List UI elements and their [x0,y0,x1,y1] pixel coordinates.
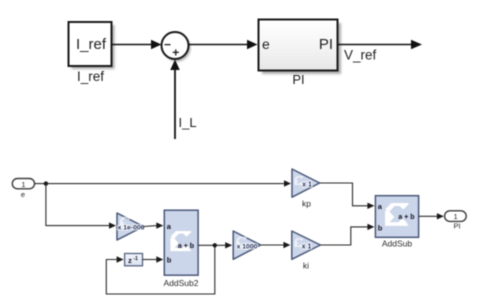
svg-text:a + b: a + b [398,214,414,221]
svg-text:kp: kp [302,199,311,209]
svg-text:x 1: x 1 [302,181,312,188]
wire e branch down to gain [46,184,109,226]
wire sum to PI [189,44,249,46]
sum junction shadow [164,35,191,62]
svg-text:e: e [262,36,270,52]
block I_ref shadow [72,25,115,69]
block AddSub2 [164,210,198,275]
block AddSub [375,196,418,238]
svg-text:z: z [128,256,132,265]
svg-text:I_ref: I_ref [77,69,104,84]
junction node [44,181,48,185]
junction node AddSub2 out [213,243,217,247]
svg-text:PI: PI [453,222,460,231]
gain x1000 triangle [233,231,260,259]
svg-text:PI: PI [319,36,333,53]
wire gain to AddSub2 a [144,225,158,228]
block PI [259,20,338,71]
svg-text:I_L: I_L [179,115,197,130]
output port 1 oval [445,211,467,222]
block I_ref [69,22,112,66]
gain kp triangle [292,169,320,197]
svg-text:e: e [21,190,25,199]
svg-text:b: b [167,256,172,265]
gain ki triangle [292,231,321,259]
wire kp to AddSub a [320,183,368,206]
svg-text:x 1000: x 1000 [237,243,258,250]
svg-text:x 1: x 1 [302,243,312,250]
svg-text:b: b [378,223,383,232]
svg-text:AddSub2: AddSub2 [164,278,199,288]
wire AddSub to output [419,215,437,217]
svg-text:x 1e-006: x 1e-006 [118,225,145,232]
gain 1e-006 triangle [117,213,144,240]
svg-text:V_ref: V_ref [344,48,377,63]
svg-text:-1: -1 [134,256,139,262]
svg-text:ki: ki [303,261,309,271]
wire e to kp [35,183,286,185]
svg-text:1: 1 [454,212,458,221]
wire PI output V_ref [338,44,413,46]
wire I_ref to sum [112,44,153,46]
wire x1000 to ki [261,244,284,246]
svg-text:PI: PI [292,72,304,87]
svg-text:AddSub: AddSub [382,239,413,249]
input port 1 oval [12,179,34,189]
block PI shadow [262,23,341,74]
wire ki to AddSub b [320,227,368,245]
svg-text:a + b: a + b [178,243,194,250]
svg-text:+: + [172,46,179,60]
delay block z-1 [125,254,143,266]
sum junction circle [162,32,189,59]
feedback wire AddSub2 out loop to z-1 [106,245,215,294]
svg-text:I_ref: I_ref [76,36,107,53]
wire z-1 to AddSub2 b [143,259,158,261]
wire I_L input [174,69,176,139]
svg-text:−: − [164,38,171,52]
wire AddSub2 out to x1000 [198,244,226,246]
svg-text:1: 1 [21,180,25,189]
